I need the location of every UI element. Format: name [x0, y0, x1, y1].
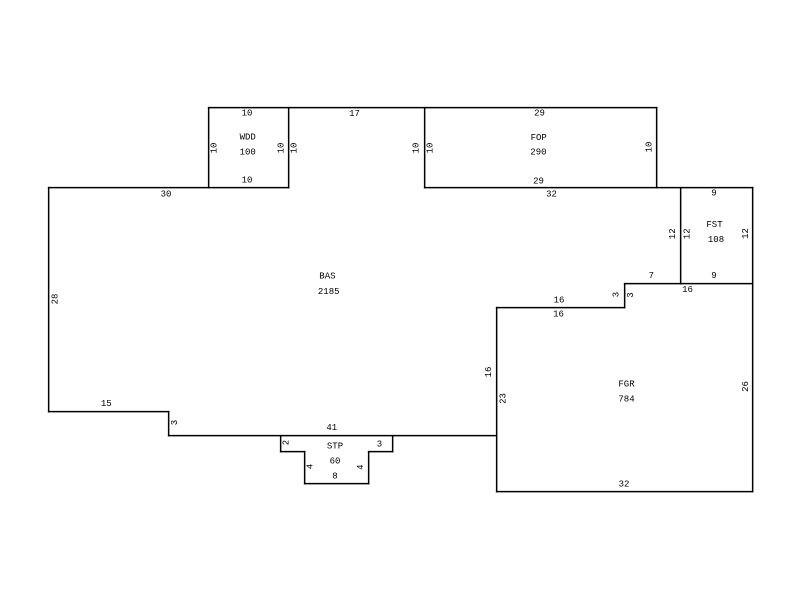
svg-text:3: 3 — [377, 439, 382, 449]
wall STP left 2 x=280 — [280, 436, 282, 452]
svg-text:23: 23 — [499, 393, 509, 404]
svg-text:12: 12 — [682, 228, 692, 239]
wall WDD left x=208 — [208, 108, 210, 188]
svg-text:4: 4 — [306, 464, 316, 469]
svg-text:WDD: WDD — [240, 133, 256, 143]
wall WDD right x=288 — [288, 108, 290, 188]
svg-text:8: 8 — [332, 472, 337, 482]
wall FST bottom 7+9 y=283 — [625, 283, 753, 285]
wall STP shelf right 3 y=451 — [369, 451, 393, 453]
wall 15 y=411 — [49, 411, 169, 413]
svg-text:10: 10 — [290, 143, 300, 154]
wall FGR bottom 32 y=491 — [497, 491, 753, 493]
wall 16 y=307 — [497, 307, 625, 309]
svg-text:3: 3 — [626, 292, 636, 297]
svg-text:10: 10 — [645, 142, 655, 153]
svg-text:28: 28 — [51, 294, 61, 305]
svg-text:10: 10 — [242, 175, 253, 185]
wall FGR left 23 x=496 — [496, 308, 498, 492]
svg-text:32: 32 — [619, 480, 630, 490]
svg-text:12: 12 — [668, 228, 678, 239]
svg-text:100: 100 — [240, 147, 256, 157]
svg-text:26: 26 — [741, 381, 751, 392]
svg-text:STP: STP — [327, 442, 343, 452]
wall BAS top-left 30 y=187 — [49, 187, 289, 189]
svg-text:10: 10 — [412, 143, 422, 154]
svg-text:FOP: FOP — [531, 133, 547, 143]
wall 3 x=168 — [168, 412, 170, 436]
svg-text:32: 32 — [546, 190, 557, 200]
wall FOP left x=424 — [424, 108, 426, 188]
svg-text:108: 108 — [708, 235, 724, 245]
wall FOP bottom / BAS 32 / FST top y=187 — [425, 187, 753, 189]
svg-text:2185: 2185 — [318, 287, 340, 297]
svg-text:16: 16 — [554, 296, 565, 306]
wall right edge FST 12 + FGR 26 x=752 — [752, 188, 754, 492]
svg-text:3: 3 — [170, 420, 180, 425]
svg-text:BAS: BAS — [319, 272, 335, 282]
wall STP bottom 8 y=483 — [305, 483, 369, 485]
svg-text:FST: FST — [706, 220, 723, 230]
wall STP 4 right x=368 — [368, 452, 370, 484]
svg-text:10: 10 — [242, 109, 253, 119]
svg-text:30: 30 — [161, 190, 172, 200]
wall FST left 12 x=680 — [680, 188, 682, 284]
svg-text:41: 41 — [326, 423, 337, 433]
svg-text:784: 784 — [618, 395, 634, 405]
svg-text:15: 15 — [101, 399, 112, 409]
svg-text:12: 12 — [741, 228, 751, 239]
wall STP shelf left y=451 — [281, 451, 305, 453]
svg-text:16: 16 — [484, 367, 494, 378]
svg-text:10: 10 — [210, 143, 220, 154]
svg-text:29: 29 — [534, 109, 545, 119]
wall BAS left 28 x=48 — [48, 188, 50, 412]
svg-text:4: 4 — [356, 464, 366, 469]
svg-text:FGR: FGR — [618, 380, 635, 390]
svg-text:7: 7 — [649, 271, 654, 281]
wall STP 4 left x=304 — [304, 452, 306, 484]
svg-text:10: 10 — [426, 143, 436, 154]
svg-text:16: 16 — [682, 285, 693, 295]
svg-text:2: 2 — [282, 440, 292, 445]
svg-text:17: 17 — [349, 109, 360, 119]
svg-text:60: 60 — [330, 456, 341, 466]
wall 41 y=435 — [169, 435, 497, 437]
svg-text:9: 9 — [711, 189, 716, 199]
svg-text:10: 10 — [276, 143, 286, 154]
svg-text:16: 16 — [553, 310, 564, 320]
wall top edge WDD/17/FOP y=107 — [209, 107, 657, 109]
svg-text:3: 3 — [612, 292, 622, 297]
wall STP right x=392 — [392, 436, 394, 452]
svg-text:9: 9 — [711, 271, 716, 281]
wall step 3 x=624 — [624, 284, 626, 308]
svg-text:290: 290 — [530, 147, 546, 157]
svg-text:29: 29 — [533, 177, 544, 187]
wall FOP right x=656 — [656, 108, 658, 188]
